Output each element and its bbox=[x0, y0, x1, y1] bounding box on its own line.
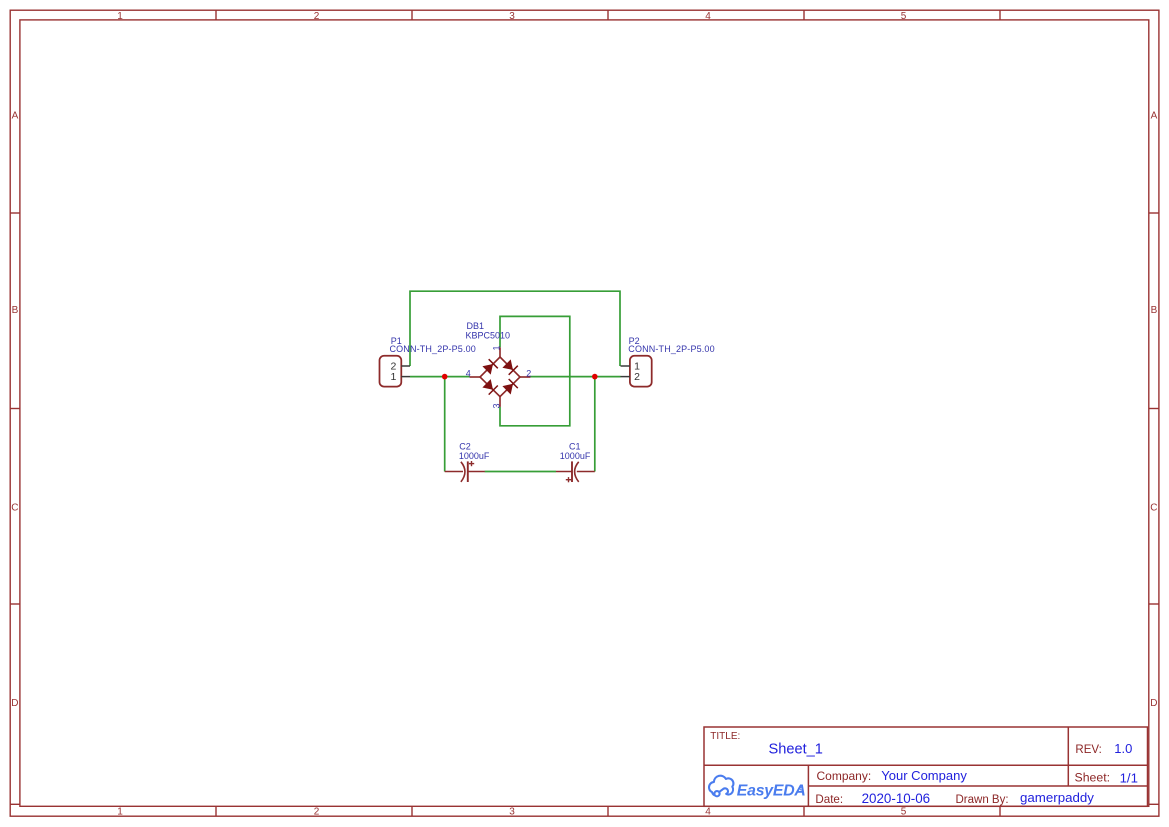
capacitor C1 bbox=[556, 461, 595, 482]
svg-text:2: 2 bbox=[526, 369, 531, 379]
svg-text:A: A bbox=[12, 111, 19, 122]
svg-text:EasyEDA: EasyEDA bbox=[737, 782, 806, 799]
svg-text:2: 2 bbox=[634, 371, 640, 383]
wire DB1.2 to P2.2 bbox=[530, 376, 620, 378]
DB1 diode top-right bbox=[502, 359, 517, 374]
svg-text:3: 3 bbox=[509, 11, 515, 22]
svg-text:4: 4 bbox=[705, 11, 711, 22]
svg-text:TITLE:: TITLE: bbox=[710, 731, 740, 742]
svg-text:1: 1 bbox=[117, 11, 123, 22]
svg-text:1.0: 1.0 bbox=[1114, 741, 1132, 756]
capacitor C2 bbox=[445, 461, 485, 482]
svg-text:A: A bbox=[1151, 111, 1158, 122]
svg-text:D: D bbox=[1150, 698, 1157, 709]
wire junction drop to C1 bbox=[594, 377, 596, 472]
title block (decorative) bbox=[704, 727, 1148, 806]
svg-text:1000uF: 1000uF bbox=[459, 451, 490, 461]
svg-text:1: 1 bbox=[117, 807, 123, 818]
svg-text:2: 2 bbox=[314, 807, 320, 818]
wire junction drop to C2 bbox=[444, 377, 446, 472]
svg-text:gamerpaddy: gamerpaddy bbox=[1020, 790, 1094, 805]
svg-text:1000uF: 1000uF bbox=[560, 451, 591, 461]
svg-text:1: 1 bbox=[390, 371, 396, 383]
svg-text:2: 2 bbox=[314, 11, 320, 22]
svg-text:5: 5 bbox=[901, 11, 907, 22]
DB1 diode bottom-left bbox=[482, 379, 497, 395]
svg-text:C1: C1 bbox=[569, 441, 581, 451]
svg-text:C: C bbox=[11, 503, 18, 514]
svg-text:B: B bbox=[1151, 305, 1158, 316]
DB1 diode bottom-right bbox=[502, 379, 517, 395]
svg-text:Drawn By:: Drawn By: bbox=[956, 794, 1009, 806]
svg-text:1/1: 1/1 bbox=[1120, 770, 1138, 785]
svg-text:Sheet:: Sheet: bbox=[1075, 771, 1111, 785]
wire DB1.1 to DB1.3 inner loop bbox=[500, 316, 570, 425]
svg-text:1: 1 bbox=[492, 345, 502, 350]
svg-text:5: 5 bbox=[901, 807, 907, 818]
EasyEDA logo (decorative) bbox=[709, 776, 733, 797]
svg-text:4: 4 bbox=[705, 807, 711, 818]
svg-text:Sheet_1: Sheet_1 bbox=[769, 742, 823, 758]
svg-text:3: 3 bbox=[491, 403, 501, 408]
svg-text:B: B bbox=[12, 305, 19, 316]
wire top loop P1.2 to P2.1 bbox=[410, 291, 620, 366]
DB1 diode top-left bbox=[482, 359, 497, 374]
svg-text:C2: C2 bbox=[459, 441, 471, 451]
wire C2 to C1 bbox=[485, 471, 556, 473]
connector P1 bbox=[380, 356, 411, 387]
svg-text:2020-10-06: 2020-10-06 bbox=[862, 791, 931, 806]
svg-text:D: D bbox=[11, 698, 18, 709]
bridge rectifier DB1 bbox=[470, 347, 531, 407]
svg-text:C: C bbox=[1150, 503, 1157, 514]
svg-text:CONN-TH_2P-P5.00: CONN-TH_2P-P5.00 bbox=[390, 344, 476, 354]
svg-text:CONN-TH_2P-P5.00: CONN-TH_2P-P5.00 bbox=[628, 344, 714, 354]
wire P1.1 to DB1.4 bbox=[410, 376, 470, 378]
connector P2 bbox=[621, 356, 652, 387]
junction node right bbox=[592, 374, 598, 380]
svg-text:Date:: Date: bbox=[815, 793, 843, 806]
svg-text:3: 3 bbox=[509, 807, 515, 818]
junction node left bbox=[442, 374, 448, 380]
svg-text:REV:: REV: bbox=[1075, 744, 1101, 756]
svg-text:4: 4 bbox=[466, 369, 471, 379]
svg-text:Company:: Company: bbox=[817, 769, 872, 783]
svg-text:Your Company: Your Company bbox=[881, 768, 967, 783]
svg-text:KBPC5010: KBPC5010 bbox=[466, 330, 511, 340]
